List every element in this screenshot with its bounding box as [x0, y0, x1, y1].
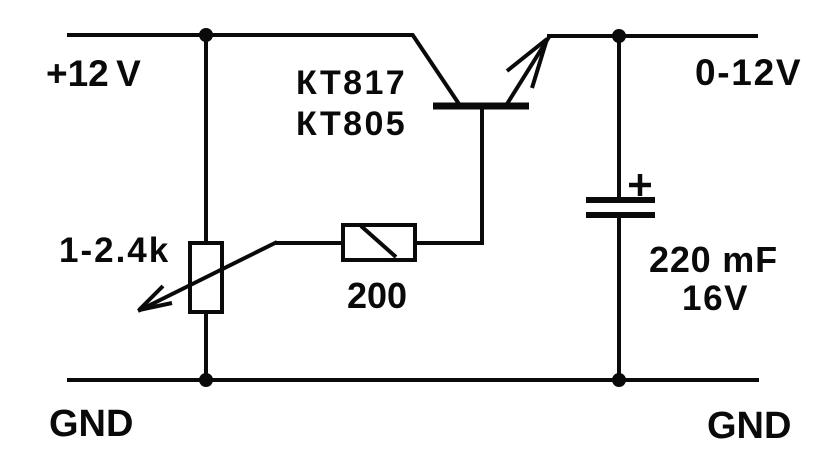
svg-text:1-2.4k: 1-2.4k [59, 231, 170, 270]
svg-text:GND: GND [707, 405, 791, 447]
transistor emitter arrow barb lower [532, 39, 547, 88]
wire wiper to resistor 200 [275, 241, 345, 245]
svg-text:КТ817: КТ817 [296, 64, 407, 102]
wire capacitor bottom [617, 217, 621, 380]
transistor collector slant [412, 34, 459, 104]
svg-text:+12 V: +12 V [46, 53, 141, 94]
svg-text:КТ805: КТ805 [296, 105, 407, 143]
transistor emitter arrow barb upper [507, 39, 547, 71]
wire top rail left [67, 33, 413, 37]
wire bottom rail GND [67, 378, 759, 382]
node junction dot top left [199, 28, 213, 42]
resistor R2 200 body [343, 225, 415, 260]
transistor emitter slant [507, 37, 549, 104]
wire resistor 200 to transistor base [415, 107, 482, 243]
transistor base bar [433, 103, 529, 110]
capacitor C1 top plate [586, 197, 655, 203]
wire left vertical from +12V rail to potentiometer [204, 35, 208, 243]
svg-text:200: 200 [347, 275, 407, 316]
svg-text:16V: 16V [682, 279, 749, 318]
svg-text:220 mF: 220 mF [649, 239, 778, 280]
wire top rail right [547, 34, 758, 38]
node junction dot bottom right [612, 373, 626, 387]
resistor R2 diagonal mark [361, 226, 396, 257]
wire capacitor top [617, 36, 621, 198]
node junction dot top right [612, 29, 626, 43]
wire potentiometer bottom to GND rail [204, 312, 208, 380]
transistor Q1 KT817/KT805 [412, 34, 549, 106]
potentiometer wiper arrow [138, 242, 277, 311]
svg-text:GND: GND [49, 403, 133, 445]
potentiometer R1 1-2.4k body [190, 243, 222, 312]
node junction dot bottom left [199, 373, 213, 387]
svg-text:0-12V: 0-12V [695, 52, 802, 93]
capacitor polarity plus sign [629, 174, 651, 196]
capacitor C1 bottom plate [586, 212, 655, 218]
